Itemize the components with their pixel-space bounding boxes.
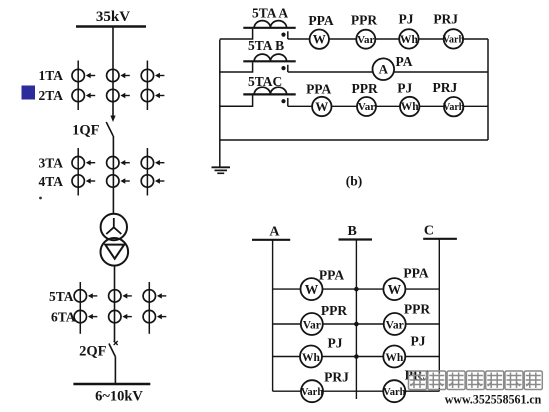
svg-text:W: W [313, 32, 326, 47]
svg-text:5TA B: 5TA B [248, 38, 284, 53]
svg-text:Wh: Wh [385, 352, 404, 364]
svg-text:6~10kV: 6~10kV [95, 389, 143, 405]
svg-text:PPR: PPR [351, 81, 377, 96]
svg-text:PPR: PPR [321, 303, 347, 318]
svg-text:Varh: Varh [443, 34, 465, 45]
svg-text:PPA: PPA [403, 266, 428, 281]
svg-text:PJ: PJ [411, 334, 426, 349]
svg-text:Varh: Varh [301, 387, 324, 398]
svg-text:Wh: Wh [400, 34, 419, 46]
svg-text:Wh: Wh [302, 352, 321, 364]
svg-text:5TA A: 5TA A [252, 6, 288, 21]
svg-text:PRJ: PRJ [433, 80, 458, 95]
svg-text:PRJ: PRJ [433, 12, 458, 27]
svg-text:W: W [388, 282, 402, 297]
svg-text:6TA: 6TA [51, 310, 76, 325]
svg-text:PJ: PJ [328, 336, 343, 351]
svg-text:A: A [379, 62, 389, 77]
svg-text:Var: Var [386, 319, 404, 331]
svg-text:(b): (b) [346, 174, 363, 189]
svg-text:W: W [315, 99, 328, 114]
svg-text:PPR: PPR [351, 13, 377, 28]
svg-text:2TA: 2TA [38, 88, 63, 103]
svg-text:Var: Var [357, 34, 374, 46]
svg-text:Var: Var [358, 101, 375, 113]
svg-text:PPR: PPR [404, 302, 430, 317]
svg-text:PRJ: PRJ [324, 370, 349, 385]
svg-text:1QF: 1QF [72, 123, 100, 139]
svg-text:A: A [269, 225, 280, 240]
svg-text:PPA: PPA [308, 13, 333, 28]
svg-text:PJ: PJ [399, 12, 414, 27]
svg-text:3TA: 3TA [38, 155, 63, 170]
svg-text:W: W [305, 282, 319, 297]
svg-text:Var: Var [303, 319, 321, 331]
svg-text:1TA: 1TA [38, 68, 63, 83]
svg-text:B: B [348, 224, 357, 239]
svg-text:Wh: Wh [401, 101, 420, 113]
svg-text:www.352558561.cn: www.352558561.cn [445, 393, 542, 407]
svg-text:5TA: 5TA [49, 289, 74, 304]
svg-text:C: C [424, 224, 434, 239]
svg-text:PPA: PPA [306, 81, 331, 96]
svg-text:5TAC: 5TAC [248, 74, 282, 89]
svg-text:PJ: PJ [397, 81, 412, 96]
svg-text:4TA: 4TA [38, 174, 63, 189]
svg-text:PPA: PPA [319, 268, 344, 283]
svg-text:35kV: 35kV [96, 9, 130, 25]
svg-text:Varh: Varh [383, 387, 406, 398]
svg-text:2QF: 2QF [79, 344, 107, 360]
svg-text:PA: PA [396, 54, 413, 69]
svg-text:Varh: Varh [443, 102, 465, 113]
